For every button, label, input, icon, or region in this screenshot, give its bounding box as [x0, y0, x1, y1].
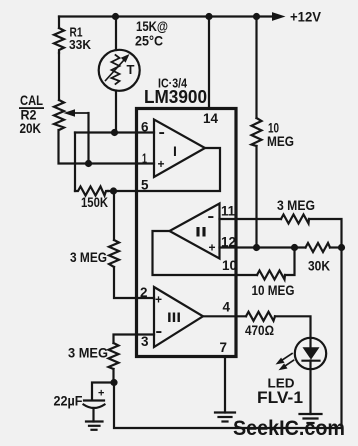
- wire R1 to R2: [58, 53, 60, 100]
- thermistor zigzag: [112, 55, 120, 84]
- resistor 470 ohm: [246, 312, 275, 321]
- LED anode wire: [309, 338, 311, 348]
- LED cathode wire: [309, 361, 311, 415]
- node pin12 30K junction: [291, 244, 298, 251]
- op-amp III: [154, 287, 203, 347]
- node junction rail-pin14: [205, 13, 212, 20]
- amp II minus: [208, 216, 213, 218]
- LED arrow 1 head: [276, 358, 285, 365]
- svg-text:6: 6: [141, 119, 149, 135]
- wire rail to R1: [58, 17, 60, 29]
- svg-text:150K: 150K: [81, 194, 108, 210]
- wire amp III output pin4: [203, 315, 246, 317]
- svg-text:22µF: 22µF: [54, 394, 83, 409]
- node pin12 10MEGv junction: [253, 244, 260, 251]
- svg-text:7: 7: [220, 339, 228, 355]
- wire pin14: [208, 17, 210, 109]
- wire pin2 stub inside box: [137, 297, 155, 299]
- svg-text:I: I: [173, 143, 177, 159]
- svg-text:470Ω: 470Ω: [245, 322, 274, 338]
- node pin6 junction: [111, 129, 118, 136]
- wire pin7 to ground: [224, 357, 226, 413]
- svg-text:SeekIC.com: SeekIC.com: [233, 417, 345, 440]
- svg-text:T: T: [127, 62, 135, 77]
- LED arrow 2 shaft: [285, 360, 294, 366]
- +12V arrow: [272, 12, 286, 21]
- wire 10MEG vertical to pin12 line: [255, 146, 257, 248]
- svg-text:3 MEG: 3 MEG: [277, 197, 315, 213]
- wire pin1 stub inside box: [137, 162, 155, 164]
- svg-text:MEG: MEG: [267, 133, 294, 149]
- LED arrow 1 shaft: [282, 354, 293, 361]
- svg-text:5: 5: [141, 177, 149, 193]
- LED triangle: [303, 347, 320, 359]
- node 30K right junction: [338, 244, 345, 251]
- wire +12V top rail: [59, 15, 275, 17]
- svg-text:LM3900: LM3900: [144, 86, 207, 107]
- wire amp II output loop to pin10: [153, 231, 258, 275]
- R2 wiper arrow shaft: [71, 112, 89, 114]
- wire pin5 node down to 3MEG upper: [113, 191, 115, 240]
- node junction rail-10MEG: [253, 13, 260, 20]
- LED FLV-1 circle: [295, 338, 326, 369]
- svg-text:10: 10: [222, 257, 237, 273]
- amp I minus: [159, 132, 164, 134]
- svg-text:3: 3: [141, 333, 149, 349]
- svg-text:+12V: +12V: [290, 9, 322, 25]
- svg-text:3 MEG: 3 MEG: [70, 249, 107, 265]
- wire wiper down to pin1: [87, 113, 89, 164]
- wire pin11: [220, 218, 282, 220]
- CAL underline: [19, 107, 44, 109]
- LED arrow 2 head: [279, 363, 288, 370]
- ground under pin7: [215, 411, 235, 413]
- wire 3MEG upper to pin2: [114, 267, 137, 298]
- svg-text:III: III: [167, 309, 181, 325]
- amp III minus: [156, 331, 161, 333]
- resistor 3 MEG upper: [109, 240, 119, 267]
- wire 30K to right node: [330, 246, 342, 248]
- node pin5 junction: [110, 187, 117, 194]
- wire rail to thermistor: [115, 17, 117, 51]
- potentiometer R2 20K: [54, 100, 64, 130]
- resistor 3 MEG lower: [109, 343, 119, 369]
- wire bottom rail: [114, 248, 342, 429]
- thermistor T circle: [99, 50, 140, 91]
- R2 wiper arrowhead: [64, 109, 76, 117]
- node cap junction: [110, 379, 117, 386]
- svg-text:1: 1: [142, 150, 147, 166]
- wire 150K to pin5: [108, 190, 137, 192]
- wire cap branch: [92, 383, 114, 400]
- svg-text:+: +: [209, 241, 216, 255]
- wire 3MEG right to corner down: [309, 219, 342, 248]
- svg-text:FLV-1: FLV-1: [257, 388, 303, 407]
- wire pin12: [220, 246, 306, 248]
- wire cap to ground: [92, 408, 94, 422]
- svg-text:12: 12: [221, 234, 236, 250]
- svg-text:+: +: [98, 388, 104, 400]
- capacitor 22uF plus plate: [84, 399, 104, 401]
- op-amp II: [170, 204, 220, 259]
- resistor R1 33K: [54, 28, 64, 53]
- resistor 10 MEG horizontal: [257, 271, 285, 280]
- svg-text:II: II: [195, 224, 207, 240]
- svg-text:+: +: [155, 293, 162, 307]
- wire pin6 left vertical down to 150K: [74, 133, 76, 192]
- svg-text:3 MEG: 3 MEG: [68, 345, 108, 361]
- svg-text:14: 14: [203, 110, 218, 126]
- svg-text:30K: 30K: [308, 258, 330, 274]
- op-amp I: [154, 120, 205, 178]
- thermistor arrow shaft: [106, 61, 124, 81]
- ground under LED: [300, 413, 322, 415]
- svg-text:33K: 33K: [69, 37, 92, 52]
- node junction rail-thermistor: [112, 13, 119, 20]
- node wiper junction: [85, 160, 92, 167]
- resistor 30K: [306, 243, 331, 252]
- svg-text:4: 4: [223, 299, 231, 315]
- wire R2 bottom to pin1 line: [59, 130, 137, 164]
- wire rail to 10MEG vertical: [255, 17, 257, 119]
- wire 3MEG lower to cap node: [112, 369, 114, 383]
- svg-text:2: 2: [140, 284, 148, 300]
- wire thermistor to pin6 line: [115, 91, 117, 133]
- resistor 150K: [75, 187, 108, 196]
- capacitor 22uF curved plate: [84, 405, 105, 409]
- wire pin3 stub to 3MEG lower: [114, 335, 155, 344]
- wire pin5 inside loop to amp I output: [137, 148, 221, 191]
- LED cathode bar: [303, 360, 320, 362]
- resistor 3 MEG right: [281, 215, 309, 224]
- ground under capacitor: [86, 420, 103, 422]
- thermistor arrowhead: [121, 54, 130, 63]
- wire 10MEG horizontal up to pin12 node: [285, 248, 295, 276]
- svg-text:+: +: [158, 157, 165, 171]
- svg-text:25°C: 25°C: [135, 33, 163, 49]
- resistor 10 MEG vertical: [252, 118, 262, 146]
- wire pin6 line: [75, 131, 154, 133]
- svg-text:20K: 20K: [20, 120, 42, 136]
- svg-text:11: 11: [221, 203, 235, 219]
- svg-text:10 MEG: 10 MEG: [252, 282, 295, 298]
- wire 470 to LED: [275, 316, 311, 338]
- IC box LM3900: [137, 109, 237, 357]
